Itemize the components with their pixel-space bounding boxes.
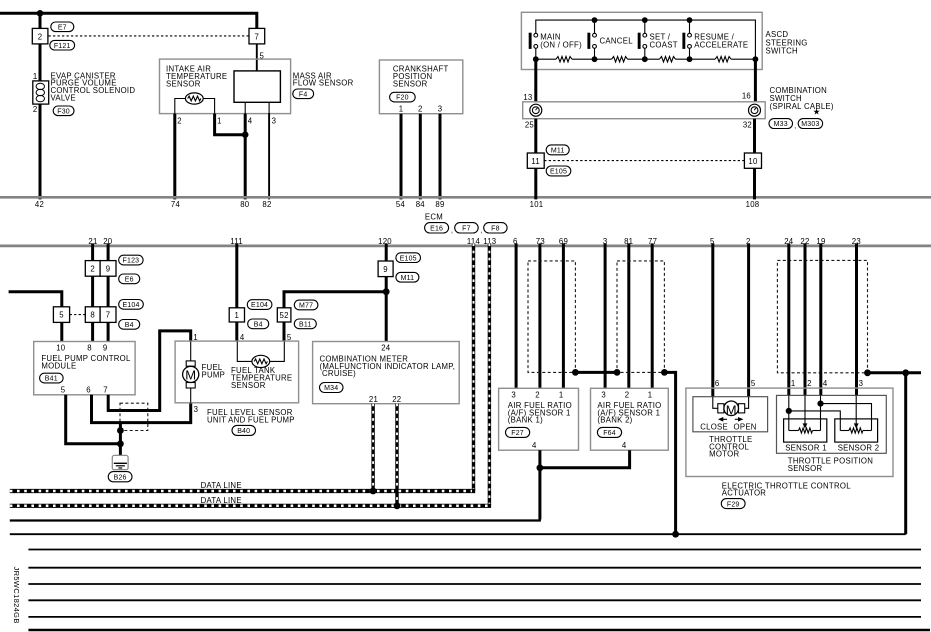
svg-text:SENSOR 1: SENSOR 1 bbox=[785, 443, 827, 452]
label: MAIN (ON / OFF) bbox=[540, 33, 582, 50]
wire: box8 to module pin 8 bbox=[91, 322, 94, 342]
wire: box7b to module pin 9 bbox=[107, 322, 110, 342]
svg-text:VALVE: VALVE bbox=[51, 94, 76, 103]
pin labels 54 84 89 bbox=[396, 200, 445, 209]
svg-text:PUMP: PUMP bbox=[202, 371, 226, 380]
fuel level sensor unit box bbox=[175, 341, 299, 403]
wire: pin4 rail to sensor2 right bbox=[821, 404, 872, 431]
node: dot on collector bbox=[672, 531, 679, 538]
connector box 10 bbox=[744, 153, 761, 168]
wire: box52 to fuel unit pin 5 bbox=[283, 322, 286, 342]
svg-text:MOTOR: MOTOR bbox=[709, 450, 739, 459]
svg-text:(ON / OFF): (ON / OFF) bbox=[540, 40, 582, 49]
wire: ASCD top rail bbox=[536, 20, 756, 59]
connector box 7 bbox=[249, 28, 265, 44]
svg-text:1: 1 bbox=[791, 379, 796, 388]
node: AF ground junction bbox=[537, 464, 544, 471]
svg-text:E16: E16 bbox=[430, 225, 443, 232]
svg-text:E104: E104 bbox=[122, 302, 139, 309]
wire: stub from left to connector 5 bbox=[9, 292, 62, 308]
wire: thermistor left lead to pin 2 bbox=[175, 99, 186, 114]
svg-text:2: 2 bbox=[625, 391, 630, 400]
wire: meter 21 data line striped bbox=[371, 404, 374, 491]
connector F121 bbox=[50, 40, 75, 50]
connector B40 bbox=[232, 425, 256, 435]
connector F123 bbox=[119, 255, 143, 265]
svg-text:22: 22 bbox=[392, 395, 401, 404]
svg-text:4: 4 bbox=[823, 379, 828, 388]
connector box 1 (E104/B4) bbox=[229, 308, 244, 322]
svg-text:8: 8 bbox=[90, 311, 95, 320]
svg-text:E105: E105 bbox=[400, 255, 417, 262]
wire: module pin 5 to ground drain bbox=[66, 395, 121, 444]
connector box 2 (E7/F121) bbox=[32, 28, 48, 44]
ground symbol B26 bbox=[112, 455, 128, 469]
node: TPS pin1 rail dot bbox=[786, 408, 792, 414]
bottom border line bbox=[28, 629, 930, 632]
svg-text:(BANK 1): (BANK 1) bbox=[508, 416, 543, 425]
svg-text:5: 5 bbox=[59, 311, 64, 320]
svg-text:M11: M11 bbox=[551, 148, 565, 155]
label: THROTTLE POSITION SENSOR bbox=[788, 456, 873, 472]
svg-text:F121: F121 bbox=[54, 43, 71, 50]
label: RESUME / ACCELERATE bbox=[694, 33, 748, 50]
connector F27 bbox=[506, 427, 530, 437]
connector E16 bbox=[425, 223, 454, 235]
wire: ECM 21 down bbox=[91, 243, 94, 261]
switch MAIN bbox=[529, 20, 595, 59]
svg-text:M: M bbox=[726, 402, 737, 417]
wire: ECM 69 to AF1 pin 1 bbox=[562, 243, 565, 388]
svg-text:F8: F8 bbox=[491, 225, 500, 232]
wire: ECM 24 to TPS pin 1 bbox=[787, 243, 790, 395]
wire: AF1 pin4 down bbox=[538, 450, 541, 468]
node: dot meter22 on bus2 bbox=[394, 502, 401, 509]
pin labels 74 80 82 bbox=[171, 200, 272, 209]
svg-text:B4: B4 bbox=[125, 322, 134, 329]
wire: 11 to ECM 101 bbox=[534, 168, 537, 199]
svg-text:4: 4 bbox=[532, 441, 537, 450]
svg-text:2: 2 bbox=[418, 105, 423, 114]
fuel pump motor bbox=[183, 342, 199, 403]
node: rail dot cancel bbox=[592, 17, 598, 23]
connector box 11 bbox=[527, 153, 544, 168]
svg-text:B40: B40 bbox=[237, 428, 250, 435]
wire: spiral 25 to connector 11 bbox=[534, 119, 537, 154]
wire: ASCD bottom rail with resistors bbox=[536, 58, 756, 60]
wire: dashed link 5 to 8 bbox=[70, 314, 86, 316]
combination switch spiral cable box bbox=[523, 102, 766, 119]
connector box 8 bbox=[85, 307, 100, 323]
wire: drain down right side bbox=[904, 373, 907, 534]
wire: thermistor left lead to pin 4 bbox=[237, 342, 252, 362]
svg-text:F7: F7 bbox=[462, 225, 471, 232]
svg-text:B26: B26 bbox=[114, 474, 127, 481]
wire: pin 1 joins pin 4 bbox=[215, 114, 246, 135]
svg-text:E7: E7 bbox=[58, 24, 67, 31]
connector M11 bbox=[546, 145, 569, 155]
connector F30 bbox=[53, 106, 74, 116]
svg-text:1: 1 bbox=[399, 105, 404, 114]
svg-text:F27: F27 bbox=[511, 430, 524, 437]
svg-text:3: 3 bbox=[194, 405, 199, 414]
svg-text:4: 4 bbox=[248, 117, 253, 126]
node: junction 120/52 bbox=[383, 288, 390, 295]
node: drain dot 1 bbox=[117, 427, 124, 434]
svg-text:MODULE: MODULE bbox=[41, 361, 76, 370]
data line bus 2 striped bbox=[10, 504, 491, 508]
svg-text:OPEN: OPEN bbox=[734, 423, 757, 432]
svg-text:,: , bbox=[451, 227, 453, 234]
wire: AF ground to left bbox=[10, 468, 541, 521]
svg-text:52: 52 bbox=[280, 311, 289, 320]
wire: top power feed bus bbox=[0, 13, 257, 29]
wire: box9c to meter pin 24 bbox=[385, 277, 388, 342]
svg-text:5: 5 bbox=[751, 379, 756, 388]
node: shield dot AF2 left bbox=[614, 369, 621, 376]
shield dashed box at module bbox=[120, 403, 148, 430]
actuator pin labels 6 5 1 2 4 3 bbox=[715, 379, 863, 388]
wire: thermistor right lead to pin 5 bbox=[270, 342, 285, 362]
svg-text:8: 8 bbox=[87, 343, 92, 352]
labels SENSOR 1 / SENSOR 2 bbox=[785, 443, 879, 452]
connector B41 bbox=[40, 373, 64, 383]
svg-text:M: M bbox=[185, 368, 196, 383]
connector M303 bbox=[798, 119, 822, 129]
node: dot meter21 on bus1 bbox=[370, 488, 377, 495]
svg-text:,: , bbox=[794, 123, 796, 130]
sensor1 wiper arrow bbox=[803, 423, 808, 428]
connector E104 b bbox=[247, 300, 272, 310]
air fuel ratio sensor bank1 box bbox=[499, 388, 579, 450]
node: rail dot set bbox=[642, 17, 648, 23]
svg-text:B41: B41 bbox=[45, 376, 58, 383]
wire: ECM 114 data line striped bbox=[472, 243, 475, 490]
sensor2 wiper arrow bbox=[854, 423, 859, 428]
shield dashed box AF2 bbox=[617, 261, 664, 373]
resistor cancel bbox=[612, 57, 628, 62]
fuel tank temp thermistor bbox=[252, 355, 270, 367]
connector E6 bbox=[119, 274, 140, 284]
wire: motor pin6 lead bbox=[713, 397, 718, 409]
svg-text:SENSOR: SENSOR bbox=[788, 464, 823, 473]
wire: solenoid to ECM pin 42 bbox=[39, 104, 42, 199]
svg-text:42: 42 bbox=[35, 200, 44, 209]
svg-text:21: 21 bbox=[369, 395, 378, 404]
svg-text:F64: F64 bbox=[603, 430, 616, 437]
svg-text:SENSOR 2: SENSOR 2 bbox=[838, 443, 880, 452]
svg-text:13: 13 bbox=[523, 93, 532, 102]
separator line 4 bbox=[28, 599, 921, 601]
label: CLOSE OPEN bbox=[700, 423, 757, 432]
crankshaft position sensor box bbox=[379, 60, 462, 114]
wire: ECM 77 to AF2 pin 1 bbox=[651, 243, 654, 388]
close arrow bbox=[718, 417, 727, 422]
svg-text:F30: F30 bbox=[57, 108, 70, 115]
svg-text:ECM: ECM bbox=[425, 212, 443, 221]
connector F20 bbox=[390, 92, 416, 102]
svg-text:COAST: COAST bbox=[650, 40, 678, 49]
wire: ASCD right to spiral 16 bbox=[754, 59, 757, 102]
connector F64 bbox=[597, 427, 621, 437]
wire: ECM 111 down bbox=[235, 243, 238, 308]
svg-text:80: 80 bbox=[240, 200, 250, 209]
svg-text:10: 10 bbox=[748, 157, 758, 166]
svg-text:B4: B4 bbox=[254, 322, 263, 329]
svg-text:CANCEL: CANCEL bbox=[600, 37, 634, 46]
svg-text:(BANK 2): (BANK 2) bbox=[597, 416, 632, 425]
label: MASS AIR FLOW SENSOR bbox=[293, 71, 354, 87]
node: shield dot AF1 bbox=[572, 369, 579, 376]
svg-text:DATA LINE: DATA LINE bbox=[201, 481, 242, 490]
svg-text:2: 2 bbox=[807, 379, 812, 388]
sensor1 resistor bbox=[789, 428, 821, 433]
wire: spiral 32 to connector 10 bbox=[753, 119, 756, 154]
svg-text:ACTUATOR: ACTUATOR bbox=[722, 489, 766, 498]
wire: dashed harness link 2 to 7 bbox=[49, 35, 249, 37]
connector box 5 bbox=[53, 307, 69, 323]
wire: meter 22 data line striped bbox=[395, 404, 398, 506]
sensor2 resistor bbox=[840, 428, 871, 433]
svg-text:54: 54 bbox=[396, 200, 406, 209]
svg-text:2: 2 bbox=[535, 391, 540, 400]
spiral symbol left bbox=[530, 104, 542, 116]
connector F7 bbox=[455, 223, 483, 235]
node: bottom rail dots bbox=[533, 56, 758, 62]
wire: box2 to box8 bbox=[91, 276, 94, 307]
svg-text:,: , bbox=[480, 227, 482, 234]
svg-text:M303: M303 bbox=[801, 121, 819, 128]
wire: ECM 5 to motor pin 6 bbox=[711, 243, 714, 396]
wire: MAF pin 3 lead bbox=[268, 102, 270, 114]
wire: ECM 2 to motor pin 5 bbox=[747, 243, 750, 396]
wire: ECM 3 to AF2 pin 3 bbox=[604, 243, 607, 388]
svg-text:E104: E104 bbox=[251, 302, 268, 309]
svg-text:F20: F20 bbox=[396, 95, 409, 102]
throttle motor symbol bbox=[718, 401, 745, 417]
wire: dashed link 11 to 10 bbox=[544, 160, 744, 162]
bus2 pin labels bbox=[88, 237, 861, 246]
label: AIR FUEL RATIO (A/F) SENSOR 1 (BANK 1) bbox=[508, 401, 572, 425]
wire: ECM 113 data line striped bbox=[488, 243, 491, 505]
label: COMBINATION SWITCH (SPIRAL CABLE) bbox=[770, 86, 834, 111]
svg-text:3: 3 bbox=[601, 391, 606, 400]
node: rail dot resume bbox=[687, 17, 693, 23]
switch CANCEL bbox=[587, 33, 596, 60]
throttle position sensor box bbox=[777, 395, 887, 453]
label: FUEL PUMP bbox=[202, 363, 226, 379]
wire: AF2 shield drain down bbox=[664, 372, 675, 534]
wire: pin1 rail to sensor2 left bbox=[789, 411, 841, 431]
svg-text:5: 5 bbox=[61, 385, 66, 394]
label: ELECTRIC THROTTLE CONTROL ACTUATOR bbox=[722, 481, 851, 497]
svg-text:6: 6 bbox=[715, 379, 720, 388]
svg-text:SENSOR: SENSOR bbox=[231, 381, 266, 390]
wire: TPS pin2 wiper lead bbox=[804, 395, 806, 424]
connector box 9 (F123/E6) bbox=[100, 261, 116, 277]
label: COMBINATION METER bbox=[320, 354, 456, 378]
wire: shield collector line bbox=[10, 533, 906, 535]
connector B26 bbox=[108, 472, 132, 482]
svg-text:1: 1 bbox=[648, 391, 653, 400]
node: junction pins 1/4 bbox=[242, 131, 249, 138]
svg-text:DATA LINE: DATA LINE bbox=[201, 496, 242, 505]
svg-text:7: 7 bbox=[106, 311, 111, 320]
spiral symbol right bbox=[749, 104, 761, 116]
svg-text:74: 74 bbox=[171, 200, 181, 209]
wire: feed to connector 2 bbox=[39, 13, 42, 29]
separator line 1 bbox=[28, 549, 921, 551]
wire: connector 2 down to solenoid bbox=[39, 44, 42, 82]
svg-text:6: 6 bbox=[86, 385, 91, 394]
svg-text:2: 2 bbox=[177, 117, 182, 126]
node: drain dot 2 bbox=[117, 440, 124, 447]
ECM bus lower bbox=[0, 245, 931, 248]
label: FUEL PUMP CONTROL MODULE bbox=[41, 354, 131, 370]
wire: ECM 73 to AF1 pin 2 bbox=[538, 243, 541, 388]
switch SET/COAST bbox=[638, 20, 647, 59]
svg-text:11: 11 bbox=[531, 157, 540, 166]
module top pin labels 10 8 9 bbox=[56, 343, 107, 352]
pin labels 1 2 3 bbox=[399, 105, 443, 114]
svg-text:SWITCH: SWITCH bbox=[766, 46, 798, 55]
svg-text:16: 16 bbox=[742, 92, 751, 101]
wire: shield drain to ground bbox=[119, 423, 122, 463]
svg-text:1: 1 bbox=[559, 391, 564, 400]
svg-text:4: 4 bbox=[622, 441, 627, 450]
svg-text:24: 24 bbox=[381, 344, 391, 353]
label: INTAKE AIR TEMPERATURE SENSOR bbox=[166, 65, 227, 89]
connector F8 bbox=[484, 223, 507, 233]
wire: ECM 120 down bbox=[385, 243, 388, 261]
svg-text:2: 2 bbox=[90, 265, 95, 274]
svg-text:9: 9 bbox=[106, 265, 111, 274]
wire: ECM 22 to TPS pin 2 wiper bbox=[804, 243, 807, 395]
resistor resume bbox=[715, 57, 731, 62]
wire: crank pin2 to ECM 84 bbox=[419, 114, 422, 200]
svg-text:89: 89 bbox=[435, 200, 444, 209]
node: TPS shield dot bbox=[864, 369, 871, 376]
svg-text:2: 2 bbox=[38, 32, 43, 41]
svg-text:10: 10 bbox=[56, 343, 66, 352]
wire: AF2 pin4 to junction bbox=[540, 450, 630, 468]
wire: ECM 81 to AF2 pin 2 bbox=[627, 243, 630, 388]
wire: TPS shield drain right bbox=[868, 371, 922, 374]
connector E105 b bbox=[396, 253, 421, 263]
label: SET / COAST bbox=[650, 33, 678, 50]
wire: box1 to fuel unit pin 4 bbox=[235, 322, 238, 342]
wire: ECM 20 down bbox=[107, 243, 110, 261]
connector E105 bbox=[546, 166, 571, 176]
wire: ASCD left to spiral 13 bbox=[534, 59, 537, 102]
svg-text:7: 7 bbox=[103, 385, 108, 394]
fuel pump control module box bbox=[34, 342, 135, 395]
connector E104 bbox=[119, 300, 144, 310]
wire: connector 5 to module pin 10 bbox=[60, 322, 63, 342]
separator line 3 bbox=[28, 583, 921, 585]
svg-text:E6: E6 bbox=[125, 277, 134, 284]
connector B4 b bbox=[248, 319, 269, 329]
svg-text:(SPIRAL CABLE): (SPIRAL CABLE) bbox=[770, 102, 834, 111]
svg-text:7: 7 bbox=[255, 32, 260, 41]
ASCD steering switch outer box bbox=[521, 12, 762, 69]
AF1 pin labels 3 2 1 bbox=[511, 391, 563, 400]
label: FUEL TANK TEMPERATURE SENSOR bbox=[231, 366, 292, 390]
svg-text:F29: F29 bbox=[727, 501, 740, 508]
wire: TPS pin1 inside bbox=[788, 395, 790, 430]
wire: TPS pin3 wiper lead bbox=[855, 395, 857, 424]
wire: shield link AF1-AF2 bbox=[575, 371, 617, 374]
sensor2 pot box bbox=[835, 419, 878, 442]
wire: ECM 6 to AF1 pin 3 bbox=[515, 243, 518, 388]
MAF sensor inner body box bbox=[234, 71, 280, 102]
svg-text:CRUISE): CRUISE) bbox=[322, 369, 356, 378]
shield dashed box TPS bbox=[777, 260, 867, 372]
svg-text:M34: M34 bbox=[324, 385, 338, 392]
svg-text:9: 9 bbox=[383, 265, 388, 274]
thermistor symbol intake air temp bbox=[185, 93, 203, 104]
svg-text:84: 84 bbox=[416, 200, 426, 209]
svg-text:108: 108 bbox=[746, 200, 760, 209]
svg-text:JR5WC1824GB: JR5WC1824GB bbox=[12, 567, 21, 624]
svg-text:3: 3 bbox=[272, 117, 277, 126]
node: junction on power feed bbox=[37, 10, 44, 17]
svg-text:E105: E105 bbox=[550, 169, 567, 176]
connector M11 b bbox=[396, 272, 419, 282]
ECM bus upper bbox=[0, 196, 931, 199]
svg-text:F4: F4 bbox=[299, 91, 308, 98]
wire: 10 to ECM 108 bbox=[753, 168, 756, 199]
svg-text:3: 3 bbox=[438, 105, 443, 114]
wire: TPS pin4 inside bbox=[820, 395, 822, 430]
label: FUEL LEVEL SENSOR UNIT AND FUEL PUMP bbox=[207, 408, 295, 424]
resistor set/coast bbox=[660, 57, 676, 62]
connector M34 bbox=[320, 383, 344, 393]
connector M77 bbox=[294, 300, 318, 310]
svg-text:SENSOR: SENSOR bbox=[166, 79, 201, 88]
svg-text:FLOW SENSOR: FLOW SENSOR bbox=[293, 79, 354, 88]
wire: box9 to box7 bbox=[107, 276, 110, 307]
svg-text:M33: M33 bbox=[774, 121, 788, 128]
svg-text:M11: M11 bbox=[401, 275, 415, 282]
svg-text:9: 9 bbox=[103, 343, 108, 352]
connector F29 bbox=[721, 499, 745, 509]
wire: pin 2 to ECM 74 bbox=[173, 114, 176, 200]
sensor1 pot box bbox=[784, 419, 827, 442]
label: THROTTLE CONTROL MOTOR bbox=[709, 435, 752, 459]
svg-text:3: 3 bbox=[859, 379, 864, 388]
svg-text:UNIT AND FUEL PUMP: UNIT AND FUEL PUMP bbox=[207, 415, 295, 424]
wire: motor pin5 lead bbox=[745, 397, 749, 409]
svg-text:101: 101 bbox=[530, 200, 544, 209]
node: shield dot AF2 right bbox=[661, 369, 668, 376]
svg-text:M77: M77 bbox=[299, 303, 313, 310]
wire: crank pin1 to ECM 54 bbox=[400, 114, 403, 200]
wire: ECM 19 to TPS pin 4 bbox=[819, 243, 822, 395]
wire: module pin 7 to fuel pump pin 1 bbox=[108, 331, 191, 411]
connector B11 bbox=[294, 319, 316, 329]
wire: MAF pin 4 lead bbox=[244, 102, 246, 120]
svg-text:2: 2 bbox=[33, 105, 38, 114]
svg-text:1: 1 bbox=[235, 311, 240, 320]
open arrow bbox=[735, 417, 744, 422]
wire: connector 7 to MAF pin 5 bbox=[256, 44, 258, 71]
node: TPS pin4 rail dot bbox=[817, 401, 823, 407]
svg-text:1: 1 bbox=[217, 117, 222, 126]
wire: junction to connector 52 bbox=[284, 292, 386, 309]
connector E7 bbox=[51, 22, 74, 32]
combination meter box bbox=[313, 342, 460, 404]
